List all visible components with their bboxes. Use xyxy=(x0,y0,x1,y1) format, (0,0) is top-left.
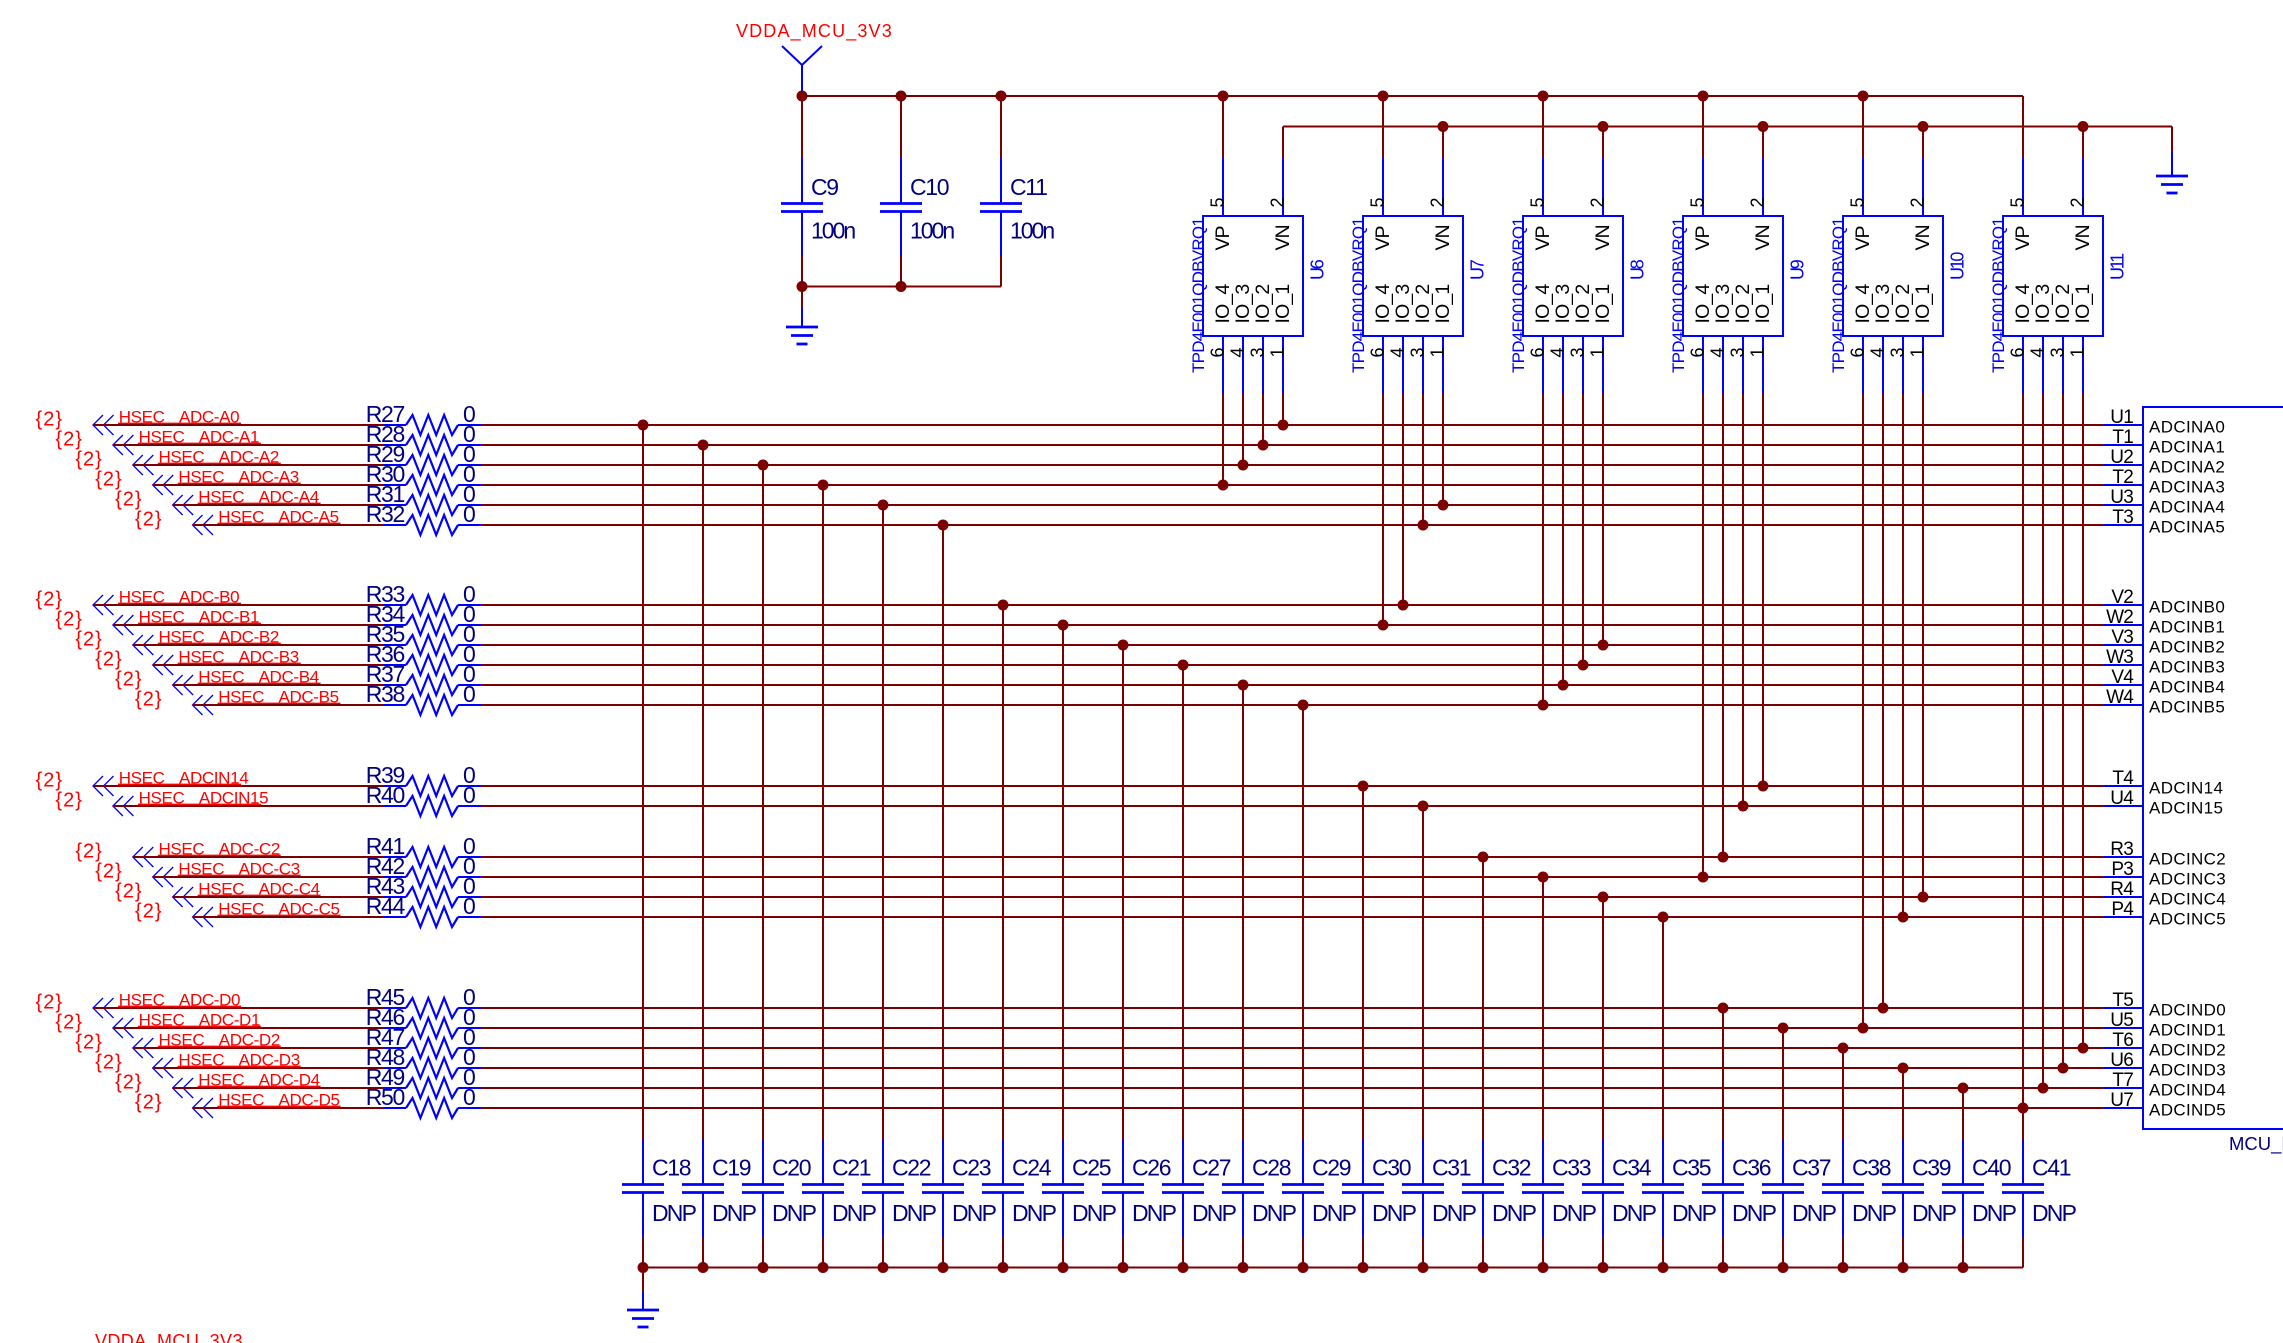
svg-text:DNP: DNP xyxy=(1672,1200,1717,1226)
svg-text:U7: U7 xyxy=(1468,259,1488,280)
wire HSEC ADC-C4 to MCU pin xyxy=(481,896,2104,898)
svg-text:DNP: DNP xyxy=(1432,1200,1477,1226)
harness tag {2} for D2 xyxy=(75,1032,102,1054)
harness tag {2} for D1 xyxy=(55,1012,82,1034)
U8 pin 2 VN xyxy=(1587,127,1614,251)
svg-text:DNP: DNP xyxy=(1732,1200,1777,1226)
resistor R33 0 xyxy=(366,581,481,615)
svg-text:1: 1 xyxy=(1747,347,1767,357)
svg-text:DNP: DNP xyxy=(1072,1200,1117,1226)
wire TVS to net ADCINA1 xyxy=(1258,394,1269,451)
wire HSEC ADC-B0 to MCU pin xyxy=(481,604,2104,606)
node D0 harness entry chevron xyxy=(93,998,114,1018)
svg-text:DNP: DNP xyxy=(1552,1200,1597,1226)
svg-text:0: 0 xyxy=(463,1084,476,1110)
MCU pin W2 ADCINB1 xyxy=(2104,607,2226,637)
wire HSEC ADC-D3 to MCU pin xyxy=(481,1067,2104,1069)
wire TVS to net ADCINC3 xyxy=(1698,394,1709,883)
wire HSEC ADC-C4 left segment xyxy=(173,896,384,898)
svg-text:IO_4: IO_4 xyxy=(1532,284,1554,324)
capacitor C20 DNP xyxy=(742,1139,817,1268)
net label HSEC ADC-D5 xyxy=(218,1090,341,1109)
node B0 harness entry chevron xyxy=(93,595,114,615)
wire HSEC ADC-A2 left segment xyxy=(133,464,384,466)
svg-text:100n: 100n xyxy=(1010,218,1054,244)
svg-text:DNP: DNP xyxy=(2032,1200,2077,1226)
svg-text:VN: VN xyxy=(2072,225,2094,250)
resistor R28 0 xyxy=(366,421,481,455)
resistor R40 0 xyxy=(366,782,481,816)
node A5 harness entry chevron xyxy=(193,515,214,535)
wire TVS to net ADCIND0 xyxy=(1878,394,1889,1014)
svg-text:C23: C23 xyxy=(952,1155,991,1181)
svg-text:W2: W2 xyxy=(2106,607,2133,628)
harness tag {2} for D5 xyxy=(135,1092,162,1114)
wire HSEC ADC-A4 to MCU pin xyxy=(481,504,2104,506)
svg-text:ADCIND1: ADCIND1 xyxy=(2149,1021,2226,1040)
svg-text:ADCINA2: ADCINA2 xyxy=(2149,458,2225,477)
U10 pin 6 IO_4 xyxy=(1847,284,1874,394)
capacitor C28 DNP xyxy=(1222,1139,1297,1268)
wire net B3 down to C27 xyxy=(1178,660,1189,1140)
svg-text:IO_1: IO_1 xyxy=(1592,285,1614,324)
resistor R45 0 xyxy=(366,984,481,1018)
svg-text:ADCINB3: ADCINB3 xyxy=(2149,658,2225,677)
U9 pin 5 VP xyxy=(1687,96,1714,251)
wire net D0 down to C36 xyxy=(1718,1003,1729,1140)
wire net B4 down to C28 xyxy=(1238,680,1249,1140)
net label HSEC ADC-C5 xyxy=(218,899,341,918)
capacitor C30 DNP xyxy=(1342,1139,1417,1268)
harness tag {2} for A1 xyxy=(55,429,82,451)
wire TVS to net ADCINA3 xyxy=(1218,394,1229,491)
svg-text:1: 1 xyxy=(1267,347,1287,357)
svg-text:1: 1 xyxy=(1427,347,1447,357)
svg-text:TPD4E001QDBVRQ1: TPD4E001QDBVRQ1 xyxy=(1669,218,1688,373)
svg-text:DNP: DNP xyxy=(1312,1200,1357,1226)
wire ground bus (bottom) xyxy=(643,1267,2023,1269)
svg-text:IO_4: IO_4 xyxy=(2012,284,2034,324)
node D2 harness entry chevron xyxy=(133,1038,154,1058)
svg-text:C21: C21 xyxy=(832,1155,871,1181)
wire HSEC ADC-A5 left segment xyxy=(193,524,385,526)
wire TVS to net ADCINC5 xyxy=(1898,394,1909,923)
svg-text:C18: C18 xyxy=(652,1155,691,1181)
wire TVS to net ADCIND5 xyxy=(2018,394,2029,1114)
wire net A4 down to C22 xyxy=(878,500,889,1140)
wire HSEC ADC-B2 to MCU pin xyxy=(481,644,2104,646)
ground (bottom left) xyxy=(627,1268,659,1328)
svg-text:6: 6 xyxy=(1687,347,1707,357)
MCU pin V2 ADCINB0 xyxy=(2104,587,2226,617)
svg-text:VN: VN xyxy=(1752,225,1774,250)
svg-text:VP: VP xyxy=(1692,226,1714,250)
capacitor C29 DNP xyxy=(1282,1139,1357,1268)
wire HSEC ADC-C3 left segment xyxy=(153,876,384,878)
harness tag {2} for B4 xyxy=(115,669,142,691)
MCU pin T1 ADCINA1 xyxy=(2104,427,2226,457)
junction dots on VN bus xyxy=(1438,121,2089,132)
U11 pin 3 IO_2 xyxy=(2047,285,2074,394)
svg-text:4: 4 xyxy=(1707,347,1727,357)
capacitor C34 DNP xyxy=(1582,1139,1657,1268)
svg-text:VP: VP xyxy=(1532,226,1554,250)
svg-text:{2}: {2} xyxy=(55,790,82,812)
net label HSEC ADC-D2 xyxy=(158,1030,281,1049)
TVS diode array U10 TPD4E001QDBVRQ1 xyxy=(1829,216,1968,373)
node A2 harness entry chevron xyxy=(133,455,154,475)
svg-text:IO_4: IO_4 xyxy=(1852,284,1874,324)
svg-text:P3: P3 xyxy=(2111,859,2133,880)
svg-text:IO_4: IO_4 xyxy=(1212,284,1234,324)
svg-text:4: 4 xyxy=(2027,347,2047,357)
wire HSEC ADCIN15 left segment xyxy=(113,805,384,807)
MCU pin V3 ADCINB2 xyxy=(2104,627,2226,657)
svg-text:C39: C39 xyxy=(1912,1155,1951,1181)
wire net C5 down to C35 xyxy=(1658,912,1669,1140)
svg-text:5: 5 xyxy=(2007,197,2027,207)
capacitor C27 DNP xyxy=(1162,1139,1237,1268)
svg-text:IO_1: IO_1 xyxy=(1272,285,1294,324)
svg-text:TPD4E001QDBVRQ1: TPD4E001QDBVRQ1 xyxy=(1989,218,2008,373)
svg-text:ADCINA0: ADCINA0 xyxy=(2149,418,2225,437)
ground (below C9) xyxy=(786,287,818,345)
resistor R42 0 xyxy=(366,853,481,887)
svg-text:C26: C26 xyxy=(1132,1155,1171,1181)
harness tag {2} for B2 xyxy=(75,629,102,651)
svg-text:W3: W3 xyxy=(2106,647,2133,668)
wire TVS to net ADCIND1 xyxy=(1858,394,1869,1034)
wire net B2 down to C26 xyxy=(1118,640,1129,1140)
svg-text:{2}: {2} xyxy=(75,1032,102,1054)
U7 pin 1 IO_1 xyxy=(1427,285,1454,394)
svg-text:C19: C19 xyxy=(712,1155,751,1181)
svg-text:VP: VP xyxy=(1212,226,1234,250)
svg-text:ADCINC5: ADCINC5 xyxy=(2149,910,2226,929)
svg-text:C30: C30 xyxy=(1372,1155,1411,1181)
wire TVS to net ADCINB0 xyxy=(1398,394,1409,611)
U10 pin 1 IO_1 xyxy=(1907,285,1934,394)
harness tag {2} for C4 xyxy=(115,881,142,903)
junction dots on VDDA bus xyxy=(797,91,1869,102)
svg-text:DNP: DNP xyxy=(1612,1200,1657,1226)
svg-text:IO_1: IO_1 xyxy=(1912,285,1934,324)
wire HSEC ADC-B1 left segment xyxy=(113,624,384,626)
svg-text:R32: R32 xyxy=(366,501,405,527)
U9 pin 3 IO_2 xyxy=(1727,285,1754,394)
MCU pin U4 ADCIN15 xyxy=(2104,788,2224,818)
svg-text:ADCINB5: ADCINB5 xyxy=(2149,698,2225,717)
TVS diode array U11 TPD4E001QDBVRQ1 xyxy=(1989,216,2128,373)
wire HSEC ADC-A1 left segment xyxy=(113,444,384,446)
svg-text:6: 6 xyxy=(1847,347,1867,357)
svg-text:1: 1 xyxy=(2067,347,2087,357)
net label HSEC ADC-D1 xyxy=(138,1010,261,1029)
wire net A5 down to C23 xyxy=(938,520,949,1140)
wire TVS to net ADCINB4 xyxy=(1558,394,1569,691)
capacitor C10 100n xyxy=(880,96,954,287)
resistor R48 0 xyxy=(366,1044,481,1078)
svg-text:{2}: {2} xyxy=(135,901,162,923)
svg-text:T4: T4 xyxy=(2112,768,2134,789)
svg-text:{2}: {2} xyxy=(135,1092,162,1114)
svg-text:{2}: {2} xyxy=(36,409,63,431)
svg-text:VP: VP xyxy=(2012,226,2034,250)
svg-text:IO_3: IO_3 xyxy=(1552,285,1574,324)
svg-text:DNP: DNP xyxy=(1132,1200,1177,1226)
svg-text:ADCINC4: ADCINC4 xyxy=(2149,890,2226,909)
MCU pin T6 ADCIND2 xyxy=(2104,1030,2227,1060)
resistor R36 0 xyxy=(366,641,481,675)
svg-text:IO_4: IO_4 xyxy=(1692,284,1714,324)
svg-text:0: 0 xyxy=(463,681,476,707)
svg-text:U11: U11 xyxy=(2108,253,2128,280)
svg-text:T7: T7 xyxy=(2112,1070,2133,1091)
net label HSEC ADC-D3 xyxy=(178,1050,301,1069)
capacitor C38 DNP xyxy=(1822,1139,1897,1268)
MCU pin T4 ADCIN14 xyxy=(2104,768,2224,798)
U11 pin 4 IO_3 xyxy=(2027,285,2054,394)
capacitor C35 DNP xyxy=(1642,1139,1717,1268)
wire HSEC ADCIN15 to MCU pin xyxy=(481,805,2104,807)
svg-text:IO_1: IO_1 xyxy=(1752,285,1774,324)
svg-text:C24: C24 xyxy=(1012,1155,1052,1181)
svg-text:ADCINA5: ADCINA5 xyxy=(2149,518,2225,537)
svg-text:{2}: {2} xyxy=(115,489,142,511)
svg-text:C9: C9 xyxy=(811,174,838,200)
capacitor C23 DNP xyxy=(922,1139,997,1268)
node D3 harness entry chevron xyxy=(153,1058,174,1078)
net label HSEC ADC-B5 xyxy=(218,687,341,706)
TVS diode array U9 TPD4E001QDBVRQ1 xyxy=(1669,216,1808,373)
U7 pin 3 IO_2 xyxy=(1407,285,1434,394)
svg-text:VN: VN xyxy=(1592,225,1614,250)
svg-text:5: 5 xyxy=(1367,197,1387,207)
harness tag {2} for A5 xyxy=(135,509,162,531)
capacitor C24 DNP xyxy=(982,1139,1057,1268)
svg-text:ADCIND4: ADCIND4 xyxy=(2149,1081,2226,1100)
wire HSEC ADC-B1 to MCU pin xyxy=(481,624,2104,626)
node IN15 harness entry chevron xyxy=(113,796,133,816)
wire HSEC ADC-A0 left segment xyxy=(93,424,384,426)
MCU pin U7 ADCIND5 xyxy=(2104,1090,2227,1120)
svg-text:{2}: {2} xyxy=(55,609,82,631)
svg-text:3: 3 xyxy=(1247,347,1267,357)
U11 pin 2 VN xyxy=(2067,127,2094,251)
capacitor C9 100n xyxy=(781,96,855,287)
svg-text:T5: T5 xyxy=(2112,990,2133,1011)
svg-text:6: 6 xyxy=(1367,347,1387,357)
wire HSEC ADC-D5 left segment xyxy=(193,1107,385,1109)
resistor R44 0 xyxy=(366,893,481,927)
MCU pin T2 ADCINA3 xyxy=(2104,467,2226,497)
wire TVS to net ADCIND3 xyxy=(2058,394,2069,1074)
net label HSEC ADCIN14 xyxy=(118,768,248,787)
U8 pin 1 IO_1 xyxy=(1587,285,1614,394)
U7 pin 2 VN xyxy=(1427,127,1454,251)
MCU pin U2 ADCINA2 xyxy=(2104,447,2226,477)
svg-text:6: 6 xyxy=(1207,347,1227,357)
svg-text:6: 6 xyxy=(1527,347,1547,357)
svg-text:3: 3 xyxy=(1407,347,1427,357)
svg-text:C35: C35 xyxy=(1672,1155,1711,1181)
wire capacitor bottoms to ground xyxy=(797,281,1002,292)
svg-text:TPD4E001QDBVRQ1: TPD4E001QDBVRQ1 xyxy=(1189,218,1208,373)
svg-text:TPD4E001QDBVRQ1: TPD4E001QDBVRQ1 xyxy=(1509,218,1528,373)
harness tag {2} for A2 xyxy=(75,449,102,471)
svg-text:R44: R44 xyxy=(366,893,406,919)
svg-text:R4: R4 xyxy=(2110,879,2134,900)
wire TVS to net ADCIND4 xyxy=(2038,394,2049,1094)
U10 pin 2 VN xyxy=(1907,127,1934,251)
wire HSEC ADC-A2 to MCU pin xyxy=(481,464,2104,466)
svg-text:R38: R38 xyxy=(366,681,405,707)
svg-text:{2}: {2} xyxy=(36,770,63,792)
svg-text:U6: U6 xyxy=(2110,1050,2133,1071)
net label HSEC ADC-B0 xyxy=(118,587,241,606)
svg-text:C33: C33 xyxy=(1552,1155,1591,1181)
U11 pin 1 IO_1 xyxy=(2067,285,2094,394)
harness tag {2} for C2 xyxy=(75,841,102,863)
svg-text:C41: C41 xyxy=(2032,1155,2071,1181)
resistor R39 0 xyxy=(366,762,481,796)
node B2 harness entry chevron xyxy=(133,635,154,655)
MCU connector sheet symbol MCU_F xyxy=(2143,407,2283,1155)
U6 pin 3 IO_2 xyxy=(1247,285,1274,394)
wire TVS to net ADCINB2 xyxy=(1598,394,1609,651)
svg-text:{2}: {2} xyxy=(135,689,162,711)
TVS diode array U7 TPD4E001QDBVRQ1 xyxy=(1349,216,1488,373)
wire VN/GND bus (second rail) xyxy=(1283,126,2172,128)
wire net D2 down to C38 xyxy=(1838,1043,1849,1140)
capacitor C22 DNP xyxy=(862,1139,937,1268)
svg-text:{2}: {2} xyxy=(55,429,82,451)
node C2 harness entry chevron xyxy=(133,847,154,867)
svg-text:C40: C40 xyxy=(1972,1155,2011,1181)
harness tag {2} for C5 xyxy=(135,901,162,923)
resistor R49 0 xyxy=(366,1064,481,1098)
junction dots on bottom ground bus xyxy=(638,1262,1969,1273)
svg-text:U8: U8 xyxy=(1628,259,1648,280)
U10 pin 4 IO_3 xyxy=(1867,285,1894,394)
svg-text:0: 0 xyxy=(463,893,476,919)
svg-text:1: 1 xyxy=(1907,347,1927,357)
svg-text:IO_1: IO_1 xyxy=(2072,285,2094,324)
svg-text:VP: VP xyxy=(1852,226,1874,250)
svg-text:DNP: DNP xyxy=(772,1200,817,1226)
harness tag {2} for A4 xyxy=(115,489,142,511)
svg-text:TPD4E001QDBVRQ1: TPD4E001QDBVRQ1 xyxy=(1349,218,1368,373)
svg-text:{2}: {2} xyxy=(95,1052,122,1074)
MCU pin W3 ADCINB3 xyxy=(2104,647,2226,677)
U9 pin 1 IO_1 xyxy=(1747,285,1774,394)
svg-text:ADCIND5: ADCIND5 xyxy=(2149,1101,2226,1120)
wire net D3 down to C39 xyxy=(1898,1063,1909,1140)
MCU pin U1 ADCINA0 xyxy=(2104,407,2226,437)
wire HSEC ADC-A3 left segment xyxy=(153,484,384,486)
svg-text:IO_4: IO_4 xyxy=(1372,284,1394,324)
svg-text:5: 5 xyxy=(1687,197,1707,207)
svg-text:C37: C37 xyxy=(1792,1155,1831,1181)
wire net C2 down to C32 xyxy=(1478,852,1489,1140)
net label HSEC ADC-A0 xyxy=(118,407,241,426)
svg-text:ADCINB4: ADCINB4 xyxy=(2149,678,2225,697)
resistor R37 0 xyxy=(366,661,481,695)
svg-text:DNP: DNP xyxy=(1492,1200,1537,1226)
harness tag {2} for D3 xyxy=(95,1052,122,1074)
svg-text:T3: T3 xyxy=(2112,507,2133,528)
node C4 harness entry chevron xyxy=(173,887,194,907)
U6 pin 2 VN xyxy=(1267,127,1294,251)
svg-text:R3: R3 xyxy=(2110,839,2133,860)
MCU pin U6 ADCIND3 xyxy=(2104,1050,2227,1080)
svg-text:DNP: DNP xyxy=(1012,1200,1057,1226)
wire HSEC ADC-B0 left segment xyxy=(93,604,384,606)
svg-text:C11: C11 xyxy=(1010,174,1047,200)
svg-text:U6: U6 xyxy=(1308,259,1328,280)
svg-text:ADCIND2: ADCIND2 xyxy=(2149,1041,2226,1060)
wire HSEC ADC-C5 left segment xyxy=(193,916,385,918)
svg-text:VDDA_MCU_3V3: VDDA_MCU_3V3 xyxy=(95,1331,243,1343)
node C5 harness entry chevron xyxy=(193,907,214,927)
wire net A2 down to C20 xyxy=(758,460,769,1140)
harness tag {2} for IN14 xyxy=(36,770,63,792)
capacitor C19 DNP xyxy=(682,1139,757,1268)
U10 pin 3 IO_2 xyxy=(1887,285,1914,394)
node B3 harness entry chevron xyxy=(153,655,174,675)
wire HSEC ADC-D4 to MCU pin xyxy=(481,1087,2104,1089)
wire HSEC ADC-A0 to MCU pin xyxy=(481,424,2104,426)
harness tag {2} for B0 xyxy=(36,589,63,611)
wire net B0 down to C24 xyxy=(998,600,1009,1140)
svg-text:DNP: DNP xyxy=(952,1200,997,1226)
MCU pin U3 ADCINA4 xyxy=(2104,487,2226,517)
wire HSEC ADC-D0 to MCU pin xyxy=(481,1007,2104,1009)
wire TVS to net ADCINC2 xyxy=(1718,394,1729,863)
svg-text:U10: U10 xyxy=(1948,252,1968,280)
resistor R35 0 xyxy=(366,621,481,655)
svg-text:{2}: {2} xyxy=(115,669,142,691)
TVS diode array U6 TPD4E001QDBVRQ1 xyxy=(1189,216,1328,373)
svg-text:3: 3 xyxy=(1887,347,1907,357)
MCU pin P3 ADCINC3 xyxy=(2104,859,2227,889)
wire TVS to net ADCINB3 xyxy=(1578,394,1589,671)
svg-text:T2: T2 xyxy=(2112,467,2133,488)
svg-text:IO_2: IO_2 xyxy=(1412,285,1434,324)
U11 pin 5 VP xyxy=(2007,96,2034,251)
svg-text:DNP: DNP xyxy=(1372,1200,1417,1226)
svg-text:C29: C29 xyxy=(1312,1155,1351,1181)
wire net IN14 down to C30 xyxy=(1358,781,1369,1140)
svg-text:ADCINC2: ADCINC2 xyxy=(2149,850,2226,869)
svg-text:R50: R50 xyxy=(366,1084,405,1110)
MCU pin W4 ADCINB5 xyxy=(2104,687,2226,717)
wire net A3 down to C21 xyxy=(818,480,829,1140)
net label HSEC ADC-A5 xyxy=(218,507,341,526)
wire HSEC ADC-D5 to MCU pin xyxy=(481,1107,2104,1109)
svg-text:MCU_F2: MCU_F2 xyxy=(2229,1133,2283,1155)
svg-text:V2: V2 xyxy=(2111,587,2133,608)
wire net A0 down to C18 xyxy=(638,420,649,1140)
svg-text:ADCINB2: ADCINB2 xyxy=(2149,638,2225,657)
net label HSEC ADC-C4 xyxy=(198,879,321,898)
power symbol VDDA_MCU_3V3 (bottom, clipped) xyxy=(95,1331,243,1343)
net label HSEC ADC-B1 xyxy=(138,607,261,626)
MCU pin U5 ADCIND1 xyxy=(2104,1010,2227,1040)
svg-text:ADCINB1: ADCINB1 xyxy=(2149,618,2225,637)
harness tag {2} for D4 xyxy=(115,1072,142,1094)
wire HSEC ADC-D1 left segment xyxy=(113,1027,384,1029)
